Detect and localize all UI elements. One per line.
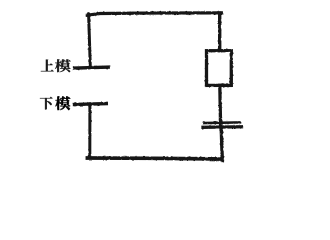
wire bottom — [87, 158, 222, 159]
label 下模 (lower mold) — [40, 97, 71, 110]
wire top — [88, 13, 222, 15]
wire lower stub and left lower vertical — [88, 104, 91, 158]
wire resistor to capacitor — [218, 85, 222, 126]
capacitor C bottom plate — [203, 125, 242, 129]
electrode lower plate (下模) — [75, 102, 107, 106]
electrode upper plate (上模) — [75, 67, 109, 68]
wire left upper vertical — [89, 14, 91, 67]
resistor R (box) — [207, 51, 232, 86]
capacitor C top plate — [204, 121, 240, 124]
label 上模 (upper mold) — [41, 59, 71, 72]
wire capacitor to bottom — [221, 127, 222, 161]
wire right upper vertical — [218, 13, 221, 51]
